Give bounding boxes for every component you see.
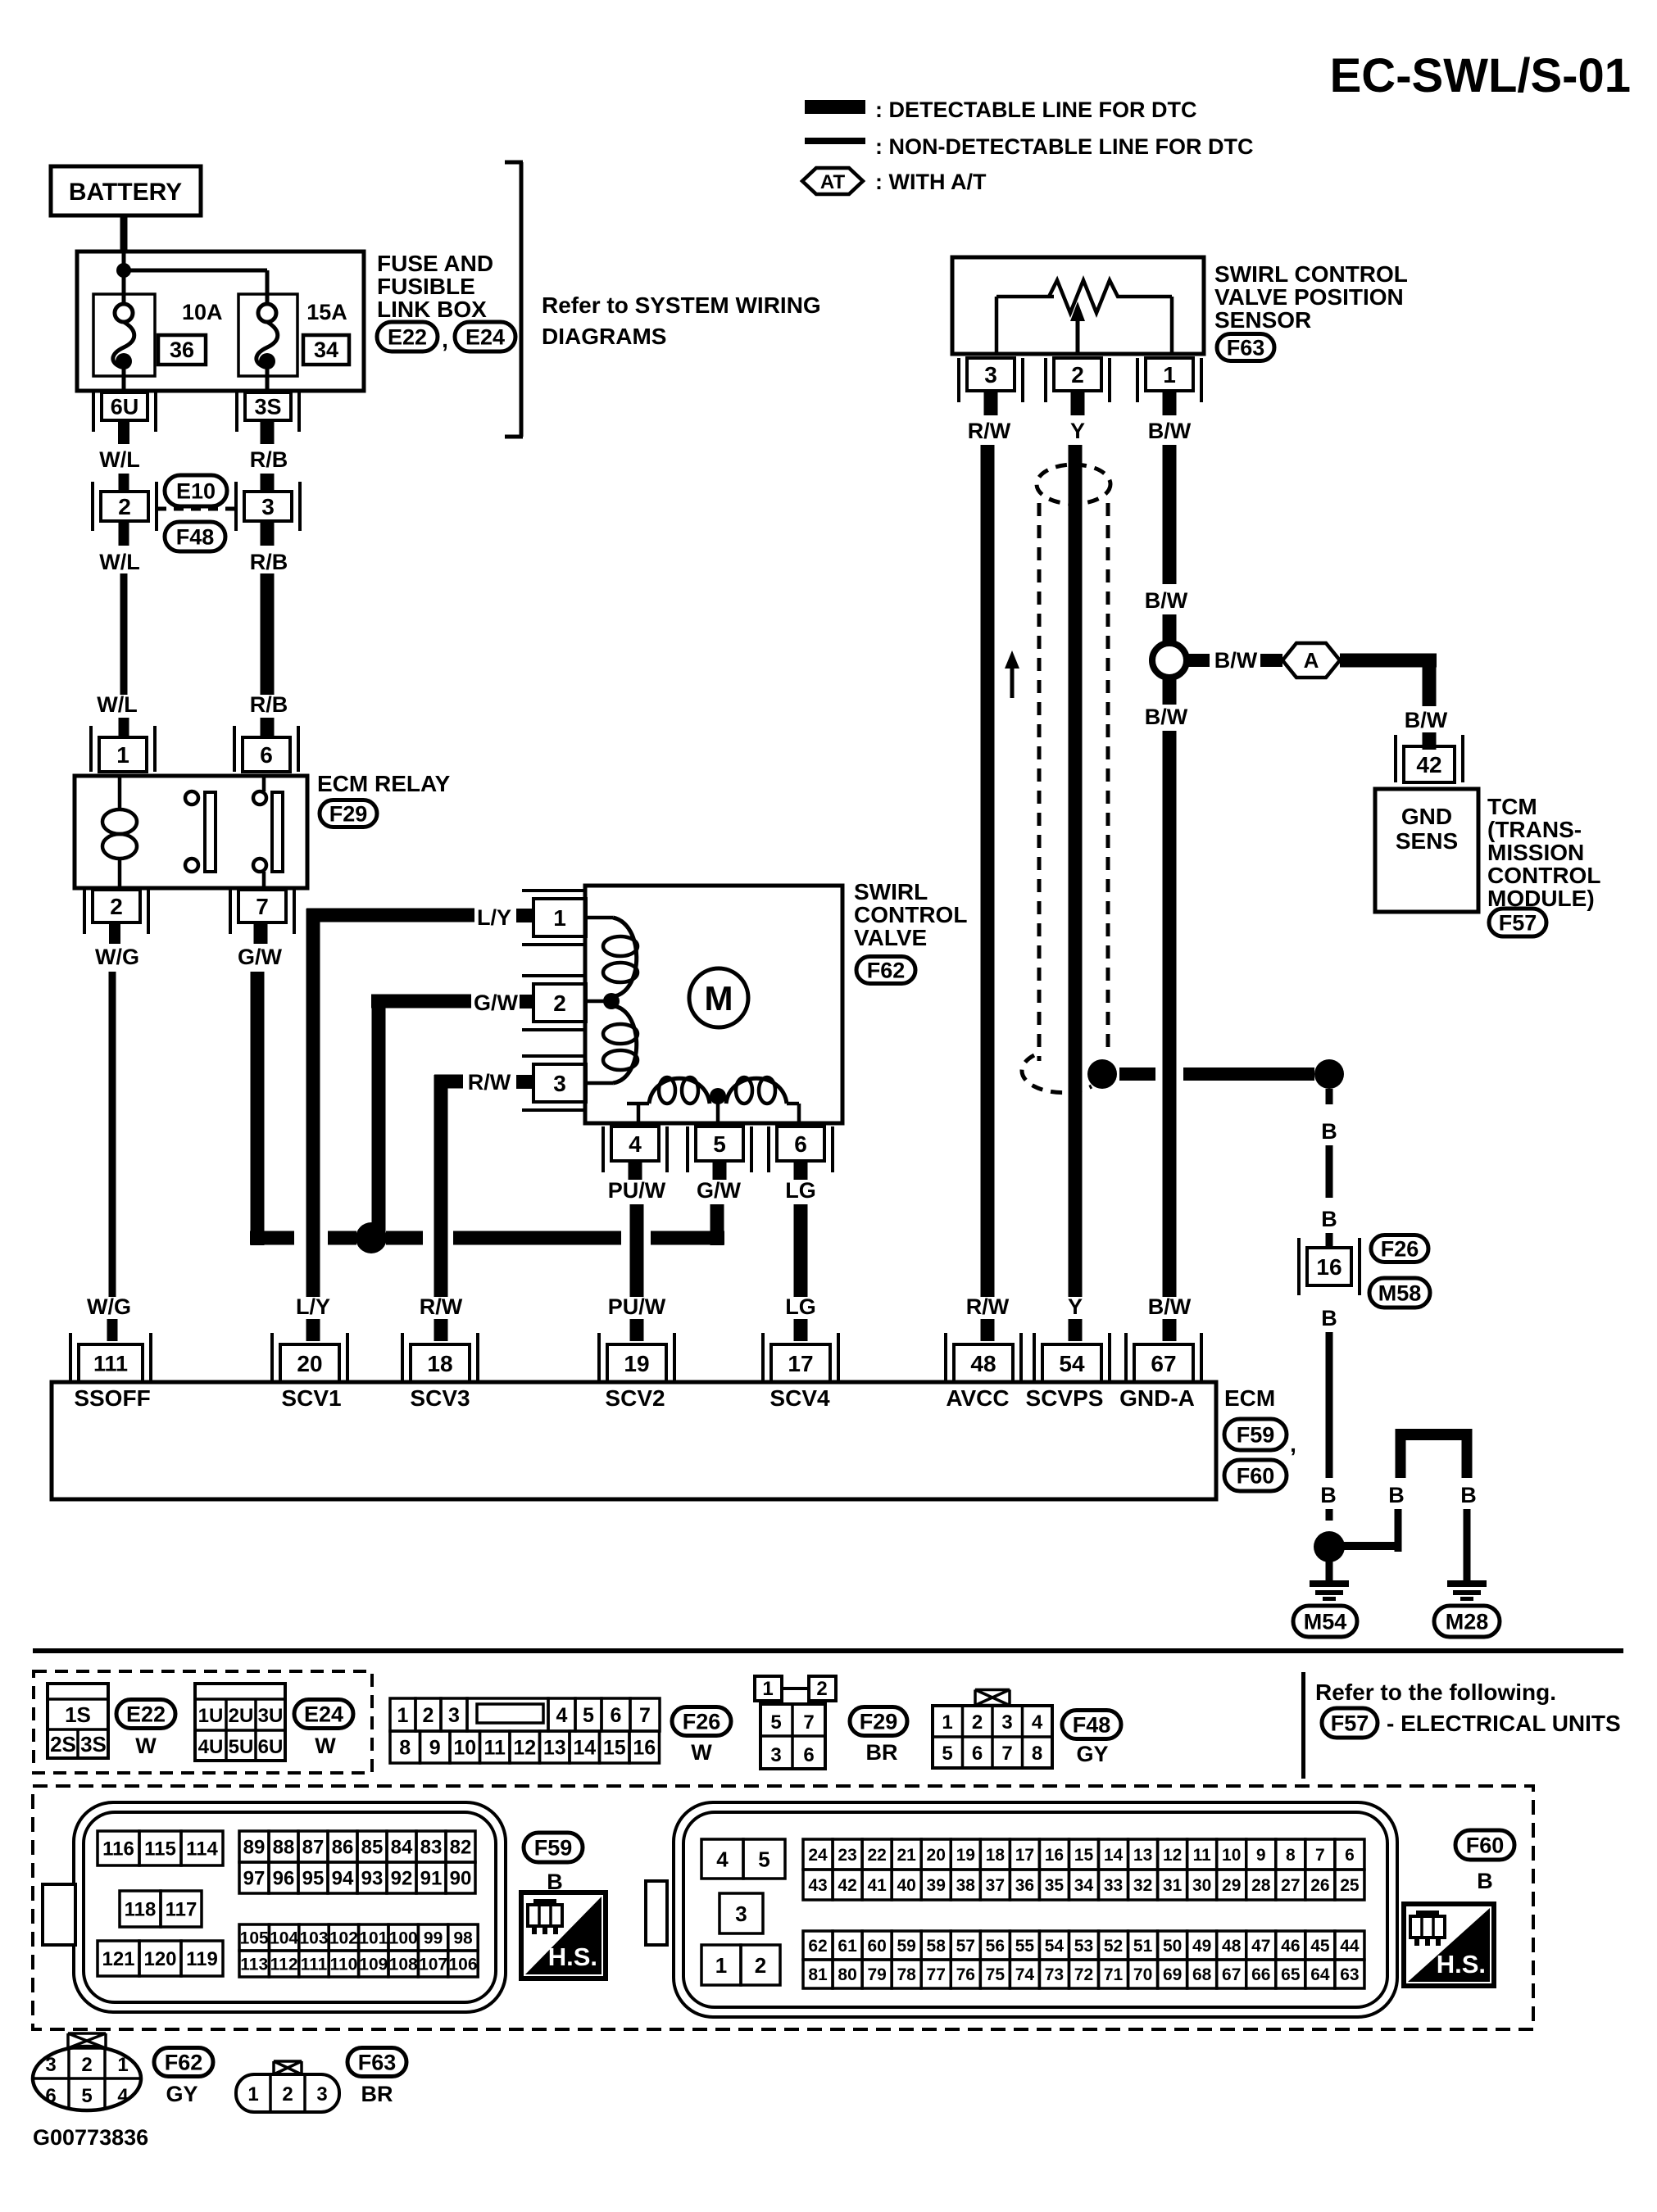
svg-text:PU/W: PU/W bbox=[608, 1294, 666, 1319]
svg-text:7: 7 bbox=[1315, 1846, 1325, 1865]
svg-text:- ELECTRICAL UNITS: - ELECTRICAL UNITS bbox=[1387, 1711, 1621, 1736]
svg-text:10: 10 bbox=[1222, 1846, 1241, 1865]
svg-text:DIAGRAMS: DIAGRAMS bbox=[542, 324, 666, 349]
svg-text:55: 55 bbox=[1015, 1937, 1035, 1956]
svg-text:15: 15 bbox=[1074, 1846, 1094, 1865]
svg-text:M54: M54 bbox=[1304, 1609, 1347, 1634]
svg-text:59: 59 bbox=[897, 1937, 915, 1956]
svg-text:15: 15 bbox=[603, 1737, 626, 1760]
svg-text:22: 22 bbox=[867, 1846, 886, 1865]
svg-text:41: 41 bbox=[867, 1876, 887, 1895]
svg-text:3S: 3S bbox=[254, 395, 281, 419]
svg-text:F29: F29 bbox=[329, 801, 368, 826]
svg-text:F59: F59 bbox=[534, 1835, 573, 1860]
svg-text:42: 42 bbox=[838, 1876, 856, 1895]
svg-text:R/W: R/W bbox=[468, 1070, 511, 1095]
svg-text:96: 96 bbox=[273, 1868, 295, 1890]
svg-text:SWIRL CONTROL: SWIRL CONTROL bbox=[1214, 261, 1408, 287]
svg-text:8: 8 bbox=[399, 1737, 411, 1760]
svg-text:GY: GY bbox=[1076, 1742, 1108, 1766]
svg-text:: WITH A/T: : WITH A/T bbox=[875, 170, 987, 194]
svg-text:B/W: B/W bbox=[1148, 1294, 1192, 1319]
svg-text:B/W: B/W bbox=[1145, 705, 1188, 729]
svg-text:SCVPS: SCVPS bbox=[1026, 1385, 1104, 1411]
svg-text:69: 69 bbox=[1163, 1965, 1182, 1984]
svg-text:6: 6 bbox=[260, 742, 273, 768]
svg-text:F59: F59 bbox=[1237, 1422, 1275, 1447]
svg-text:78: 78 bbox=[897, 1965, 916, 1984]
svg-text:65: 65 bbox=[1281, 1965, 1301, 1984]
svg-text:AVCC: AVCC bbox=[946, 1385, 1009, 1411]
svg-text:(TRANS-: (TRANS- bbox=[1487, 817, 1582, 842]
svg-text:104: 104 bbox=[270, 1929, 298, 1948]
svg-text:62: 62 bbox=[808, 1937, 827, 1956]
svg-text:67: 67 bbox=[1222, 1965, 1241, 1984]
svg-text:ECM RELAY: ECM RELAY bbox=[317, 771, 451, 796]
svg-text:,: , bbox=[442, 327, 448, 352]
svg-text:6U: 6U bbox=[111, 395, 139, 419]
svg-text:7: 7 bbox=[1001, 1743, 1012, 1765]
svg-text:32: 32 bbox=[1133, 1876, 1152, 1895]
svg-text:120: 120 bbox=[143, 1948, 176, 1970]
svg-text:SENSOR: SENSOR bbox=[1214, 307, 1311, 333]
svg-text:CONTROL: CONTROL bbox=[1487, 863, 1600, 888]
svg-text:10: 10 bbox=[453, 1737, 476, 1760]
svg-text:80: 80 bbox=[838, 1965, 856, 1984]
svg-text:1: 1 bbox=[715, 1953, 727, 1978]
svg-text:B: B bbox=[1460, 1483, 1477, 1507]
svg-text:36: 36 bbox=[170, 338, 194, 362]
svg-text:64: 64 bbox=[1310, 1965, 1330, 1984]
svg-text:6: 6 bbox=[611, 1704, 622, 1727]
svg-text:L/Y: L/Y bbox=[477, 905, 511, 930]
svg-text:20: 20 bbox=[297, 1351, 322, 1376]
svg-text:34: 34 bbox=[1074, 1876, 1094, 1895]
svg-text:82: 82 bbox=[450, 1837, 472, 1859]
svg-text:5U: 5U bbox=[229, 1736, 254, 1758]
svg-text:,: , bbox=[1290, 1431, 1296, 1457]
svg-text:F60: F60 bbox=[1466, 1833, 1505, 1857]
svg-text:3: 3 bbox=[1001, 1711, 1012, 1734]
svg-text:AT: AT bbox=[820, 171, 846, 193]
svg-text:F29: F29 bbox=[860, 1709, 898, 1734]
svg-text:F62: F62 bbox=[867, 958, 906, 982]
svg-text:3: 3 bbox=[45, 2054, 56, 2076]
svg-text:G/W: G/W bbox=[697, 1178, 742, 1203]
svg-text:1: 1 bbox=[942, 1711, 952, 1734]
svg-text:3: 3 bbox=[448, 1704, 460, 1727]
svg-text:2: 2 bbox=[553, 990, 566, 1016]
svg-text:28: 28 bbox=[1251, 1876, 1271, 1895]
svg-text:71: 71 bbox=[1104, 1965, 1124, 1984]
svg-text:86: 86 bbox=[332, 1837, 354, 1859]
svg-text:B: B bbox=[1388, 1483, 1405, 1507]
svg-text:R/B: R/B bbox=[250, 550, 288, 574]
svg-text:BR: BR bbox=[866, 1740, 898, 1765]
svg-text:L/Y: L/Y bbox=[296, 1294, 330, 1319]
svg-text:B: B bbox=[1321, 1306, 1337, 1330]
svg-text:14: 14 bbox=[573, 1737, 596, 1760]
svg-text:F63: F63 bbox=[1227, 335, 1265, 360]
svg-text:G00773836: G00773836 bbox=[33, 2125, 148, 2150]
svg-text:29: 29 bbox=[1222, 1876, 1241, 1895]
svg-text:34: 34 bbox=[314, 338, 338, 362]
svg-text:A: A bbox=[1304, 648, 1319, 673]
svg-text:68: 68 bbox=[1192, 1965, 1212, 1984]
svg-text:SCV2: SCV2 bbox=[605, 1385, 665, 1411]
svg-text:25: 25 bbox=[1340, 1876, 1360, 1895]
svg-text:TCM: TCM bbox=[1487, 794, 1537, 819]
svg-text:117: 117 bbox=[166, 1899, 197, 1921]
svg-text:F62: F62 bbox=[165, 2050, 203, 2074]
svg-text:: NON-DETECTABLE LINE FOR DTC: : NON-DETECTABLE LINE FOR DTC bbox=[875, 134, 1253, 159]
svg-text:R/W: R/W bbox=[420, 1294, 463, 1319]
svg-text:31: 31 bbox=[1163, 1876, 1183, 1895]
svg-text:106: 106 bbox=[448, 1956, 477, 1974]
svg-text:1: 1 bbox=[762, 1678, 773, 1700]
svg-text:3: 3 bbox=[984, 362, 997, 388]
svg-text:91: 91 bbox=[420, 1868, 443, 1890]
svg-text:BATTERY: BATTERY bbox=[69, 179, 182, 206]
svg-text:H.S.: H.S. bbox=[548, 1942, 597, 1971]
svg-text:Refer to the following.: Refer to the following. bbox=[1315, 1679, 1556, 1705]
svg-text:1: 1 bbox=[116, 742, 129, 768]
svg-text:6: 6 bbox=[45, 2085, 56, 2107]
svg-text:77: 77 bbox=[927, 1965, 946, 1984]
svg-text:95: 95 bbox=[302, 1868, 325, 1890]
svg-text:43: 43 bbox=[808, 1876, 827, 1895]
svg-text:121: 121 bbox=[102, 1948, 134, 1970]
svg-text:112: 112 bbox=[270, 1956, 298, 1974]
svg-text:39: 39 bbox=[927, 1876, 946, 1895]
svg-text:R/B: R/B bbox=[250, 692, 288, 717]
svg-text:18: 18 bbox=[427, 1351, 452, 1376]
svg-text:119: 119 bbox=[186, 1948, 218, 1970]
svg-text:11: 11 bbox=[484, 1737, 506, 1760]
svg-text:63: 63 bbox=[1340, 1965, 1359, 1984]
svg-text:F48: F48 bbox=[176, 524, 215, 549]
svg-text:118: 118 bbox=[125, 1899, 157, 1921]
svg-text:116: 116 bbox=[102, 1838, 134, 1861]
svg-text:48: 48 bbox=[1222, 1937, 1242, 1956]
svg-text:13: 13 bbox=[1133, 1846, 1152, 1865]
svg-text:3U: 3U bbox=[258, 1705, 284, 1727]
svg-text:6: 6 bbox=[794, 1131, 807, 1157]
svg-text:B/W: B/W bbox=[1148, 419, 1192, 443]
svg-text:R/B: R/B bbox=[250, 447, 288, 472]
svg-text:F26: F26 bbox=[683, 1709, 721, 1734]
svg-text:SCV1: SCV1 bbox=[281, 1385, 341, 1411]
svg-text:13: 13 bbox=[543, 1737, 566, 1760]
svg-text:2: 2 bbox=[81, 2054, 92, 2076]
svg-text:2: 2 bbox=[282, 2083, 293, 2105]
svg-text:75: 75 bbox=[986, 1965, 1006, 1984]
svg-text:W/L: W/L bbox=[99, 447, 139, 472]
svg-text:LINK BOX: LINK BOX bbox=[377, 297, 487, 322]
svg-text:BR: BR bbox=[361, 2082, 393, 2106]
svg-text:6: 6 bbox=[1345, 1846, 1355, 1865]
svg-text:30: 30 bbox=[1192, 1876, 1211, 1895]
svg-text:5: 5 bbox=[758, 1847, 769, 1871]
svg-text:7: 7 bbox=[803, 1711, 814, 1734]
svg-text:W/G: W/G bbox=[87, 1294, 131, 1319]
svg-text:4: 4 bbox=[117, 2085, 129, 2107]
svg-text:35: 35 bbox=[1045, 1876, 1065, 1895]
svg-text:16: 16 bbox=[1316, 1254, 1341, 1280]
svg-text:2U: 2U bbox=[229, 1705, 254, 1727]
svg-text:W/G: W/G bbox=[95, 945, 139, 969]
svg-text:LG: LG bbox=[785, 1294, 816, 1319]
svg-text:M: M bbox=[705, 979, 733, 1018]
svg-text:Y: Y bbox=[1070, 419, 1085, 443]
svg-text:115: 115 bbox=[144, 1838, 176, 1861]
svg-text:24: 24 bbox=[808, 1846, 828, 1865]
svg-text:Refer to SYSTEM WIRING: Refer to SYSTEM WIRING bbox=[542, 292, 821, 318]
svg-text:5: 5 bbox=[713, 1131, 726, 1157]
svg-text:SSOFF: SSOFF bbox=[74, 1385, 150, 1411]
svg-text:3S: 3S bbox=[80, 1732, 107, 1756]
svg-text:98: 98 bbox=[453, 1929, 473, 1948]
svg-text:B/W: B/W bbox=[1214, 648, 1258, 673]
svg-text:12: 12 bbox=[513, 1737, 536, 1760]
svg-text:74: 74 bbox=[1015, 1965, 1035, 1984]
svg-text:GND: GND bbox=[1401, 804, 1452, 829]
svg-text:85: 85 bbox=[361, 1837, 384, 1859]
svg-text:E24: E24 bbox=[304, 1702, 343, 1726]
svg-text:2: 2 bbox=[110, 894, 123, 919]
svg-text:5: 5 bbox=[583, 1704, 594, 1727]
svg-text:56: 56 bbox=[986, 1937, 1005, 1956]
svg-text:: DETECTABLE LINE FOR DTC: : DETECTABLE LINE FOR DTC bbox=[875, 97, 1196, 122]
svg-text:W: W bbox=[691, 1740, 712, 1765]
svg-text:92: 92 bbox=[391, 1868, 413, 1890]
svg-text:45: 45 bbox=[1310, 1937, 1330, 1956]
svg-text:1: 1 bbox=[117, 2054, 128, 2076]
svg-text:1: 1 bbox=[553, 905, 566, 931]
svg-text:7: 7 bbox=[639, 1704, 651, 1727]
svg-text:PU/W: PU/W bbox=[608, 1178, 666, 1203]
svg-text:R/W: R/W bbox=[968, 419, 1011, 443]
svg-text:2: 2 bbox=[755, 1953, 766, 1978]
svg-text:FUSIBLE: FUSIBLE bbox=[377, 274, 475, 299]
svg-text:3: 3 bbox=[316, 2083, 327, 2105]
svg-text:26: 26 bbox=[1310, 1876, 1329, 1895]
svg-text:27: 27 bbox=[1281, 1876, 1300, 1895]
svg-text:2: 2 bbox=[816, 1678, 827, 1700]
svg-text:54: 54 bbox=[1045, 1937, 1065, 1956]
svg-text:88: 88 bbox=[273, 1837, 295, 1859]
svg-text:B: B bbox=[1321, 1207, 1337, 1231]
svg-text:113: 113 bbox=[240, 1956, 268, 1974]
svg-text:4: 4 bbox=[1032, 1711, 1043, 1734]
svg-text:66: 66 bbox=[1251, 1965, 1270, 1984]
svg-text:109: 109 bbox=[359, 1956, 388, 1974]
svg-text:99: 99 bbox=[424, 1929, 443, 1948]
svg-text:17: 17 bbox=[1015, 1846, 1034, 1865]
svg-text:19: 19 bbox=[956, 1846, 975, 1865]
svg-text:50: 50 bbox=[1163, 1937, 1182, 1956]
svg-text:48: 48 bbox=[970, 1351, 996, 1376]
svg-text:81: 81 bbox=[808, 1965, 828, 1984]
svg-text:3: 3 bbox=[735, 1902, 747, 1926]
svg-text:51: 51 bbox=[1133, 1937, 1153, 1956]
svg-text:G/W: G/W bbox=[238, 945, 283, 969]
svg-text:2: 2 bbox=[118, 494, 131, 519]
svg-text:8: 8 bbox=[1286, 1846, 1296, 1865]
svg-text:9: 9 bbox=[1256, 1846, 1266, 1865]
svg-text:102: 102 bbox=[329, 1929, 358, 1948]
svg-text:6U: 6U bbox=[258, 1736, 284, 1758]
svg-text:6: 6 bbox=[803, 1744, 814, 1766]
svg-text:B: B bbox=[1321, 1119, 1337, 1144]
svg-text:16: 16 bbox=[633, 1737, 656, 1760]
svg-text:110: 110 bbox=[329, 1956, 357, 1974]
svg-text:1: 1 bbox=[247, 2083, 258, 2105]
svg-text:VALVE: VALVE bbox=[854, 925, 927, 950]
svg-text:MISSION: MISSION bbox=[1487, 840, 1584, 865]
svg-text:44: 44 bbox=[1340, 1937, 1360, 1956]
svg-text:60: 60 bbox=[867, 1937, 886, 1956]
svg-text:1U: 1U bbox=[198, 1705, 224, 1727]
svg-text:111: 111 bbox=[301, 1956, 328, 1974]
svg-text:GY: GY bbox=[166, 2082, 197, 2106]
svg-text:M58: M58 bbox=[1378, 1281, 1422, 1305]
svg-text:33: 33 bbox=[1104, 1876, 1123, 1895]
svg-text:21: 21 bbox=[897, 1846, 916, 1865]
svg-text:B/W: B/W bbox=[1145, 588, 1188, 613]
svg-text:2S: 2S bbox=[50, 1732, 76, 1756]
svg-text:F48: F48 bbox=[1073, 1712, 1111, 1737]
svg-text:E10: E10 bbox=[176, 478, 216, 503]
svg-text:67: 67 bbox=[1151, 1351, 1176, 1376]
svg-text:E22: E22 bbox=[388, 324, 427, 349]
svg-text:72: 72 bbox=[1074, 1965, 1093, 1984]
svg-text:11: 11 bbox=[1193, 1846, 1212, 1865]
svg-text:LG: LG bbox=[785, 1178, 816, 1203]
svg-text:16: 16 bbox=[1045, 1846, 1064, 1865]
svg-text:F63: F63 bbox=[358, 2050, 397, 2074]
svg-text:54: 54 bbox=[1059, 1351, 1085, 1376]
svg-text:E22: E22 bbox=[126, 1702, 166, 1726]
svg-text:93: 93 bbox=[361, 1868, 384, 1890]
svg-text:ECM: ECM bbox=[1224, 1385, 1275, 1411]
svg-text:G/W: G/W bbox=[474, 990, 519, 1015]
svg-text:20: 20 bbox=[927, 1846, 946, 1865]
svg-text:107: 107 bbox=[419, 1956, 447, 1974]
svg-text:EC-SWL/S-01: EC-SWL/S-01 bbox=[1330, 49, 1631, 102]
svg-text:SWIRL: SWIRL bbox=[854, 879, 928, 904]
svg-text:5: 5 bbox=[942, 1743, 952, 1765]
svg-text:97: 97 bbox=[243, 1868, 266, 1890]
svg-text:9: 9 bbox=[429, 1737, 441, 1760]
svg-text:18: 18 bbox=[986, 1846, 1006, 1865]
svg-text:8: 8 bbox=[1032, 1743, 1042, 1765]
svg-text:B: B bbox=[1477, 1869, 1493, 1893]
svg-text:F57: F57 bbox=[1331, 1711, 1369, 1735]
svg-text:47: 47 bbox=[1251, 1937, 1270, 1956]
svg-text:FUSE AND: FUSE AND bbox=[377, 251, 493, 276]
svg-text:W: W bbox=[135, 1734, 157, 1758]
svg-text:114: 114 bbox=[186, 1838, 218, 1861]
svg-text:2: 2 bbox=[423, 1704, 434, 1727]
svg-text:76: 76 bbox=[956, 1965, 975, 1984]
svg-text:2: 2 bbox=[1071, 362, 1084, 388]
svg-text:15A: 15A bbox=[306, 300, 347, 324]
svg-text:F57: F57 bbox=[1499, 910, 1537, 935]
svg-text:GND-A: GND-A bbox=[1119, 1385, 1195, 1411]
svg-text:10A: 10A bbox=[182, 300, 223, 324]
svg-text:53: 53 bbox=[1074, 1937, 1093, 1956]
svg-text:M28: M28 bbox=[1446, 1609, 1489, 1634]
svg-text:84: 84 bbox=[391, 1837, 413, 1859]
svg-text:SCV4: SCV4 bbox=[769, 1385, 830, 1411]
svg-text:1S: 1S bbox=[65, 1702, 91, 1727]
svg-text:94: 94 bbox=[332, 1868, 354, 1890]
svg-text:73: 73 bbox=[1045, 1965, 1064, 1984]
svg-text:58: 58 bbox=[927, 1937, 947, 1956]
svg-text:3: 3 bbox=[553, 1071, 566, 1096]
svg-text:4U: 4U bbox=[198, 1736, 224, 1758]
svg-text:19: 19 bbox=[624, 1351, 649, 1376]
svg-text:5: 5 bbox=[81, 2085, 92, 2107]
svg-text:3: 3 bbox=[770, 1744, 781, 1766]
svg-text:2: 2 bbox=[972, 1711, 983, 1734]
svg-text:79: 79 bbox=[867, 1965, 886, 1984]
svg-text:W/L: W/L bbox=[97, 692, 137, 717]
svg-text:H.S.: H.S. bbox=[1437, 1950, 1486, 1979]
svg-text:17: 17 bbox=[788, 1351, 813, 1376]
svg-text:108: 108 bbox=[389, 1956, 418, 1974]
svg-text:23: 23 bbox=[838, 1846, 856, 1865]
svg-text:105: 105 bbox=[240, 1929, 269, 1948]
svg-text:W: W bbox=[315, 1734, 336, 1758]
svg-text:70: 70 bbox=[1133, 1965, 1152, 1984]
svg-text:F26: F26 bbox=[1381, 1236, 1419, 1261]
svg-text:7: 7 bbox=[256, 894, 269, 919]
svg-text:VALVE POSITION: VALVE POSITION bbox=[1214, 284, 1404, 310]
svg-text:CONTROL: CONTROL bbox=[854, 902, 967, 927]
svg-text:49: 49 bbox=[1192, 1937, 1211, 1956]
svg-text:36: 36 bbox=[1015, 1876, 1034, 1895]
svg-text:R/W: R/W bbox=[966, 1294, 1010, 1319]
svg-text:W/L: W/L bbox=[99, 550, 139, 574]
svg-text:87: 87 bbox=[302, 1837, 325, 1859]
svg-text:101: 101 bbox=[359, 1929, 388, 1948]
svg-text:14: 14 bbox=[1104, 1846, 1124, 1865]
svg-text:40: 40 bbox=[897, 1876, 915, 1895]
svg-text:SENS: SENS bbox=[1396, 828, 1458, 854]
svg-text:103: 103 bbox=[299, 1929, 328, 1948]
svg-text:SCV3: SCV3 bbox=[410, 1385, 470, 1411]
svg-text:12: 12 bbox=[1163, 1846, 1182, 1865]
svg-text:F60: F60 bbox=[1237, 1463, 1275, 1488]
svg-text:38: 38 bbox=[956, 1876, 976, 1895]
svg-text:4: 4 bbox=[629, 1131, 642, 1157]
svg-text:90: 90 bbox=[450, 1868, 472, 1890]
svg-text:100: 100 bbox=[389, 1929, 418, 1948]
svg-text:37: 37 bbox=[986, 1876, 1005, 1895]
svg-text:Y: Y bbox=[1068, 1294, 1083, 1319]
svg-text:5: 5 bbox=[770, 1711, 781, 1734]
svg-text:83: 83 bbox=[420, 1837, 443, 1859]
svg-text:42: 42 bbox=[1416, 752, 1441, 777]
svg-text:E24: E24 bbox=[465, 324, 505, 349]
svg-text:46: 46 bbox=[1281, 1937, 1300, 1956]
svg-text:89: 89 bbox=[243, 1837, 266, 1859]
svg-text:1: 1 bbox=[1163, 362, 1176, 388]
svg-text:52: 52 bbox=[1104, 1937, 1123, 1956]
svg-text:61: 61 bbox=[838, 1937, 857, 1956]
